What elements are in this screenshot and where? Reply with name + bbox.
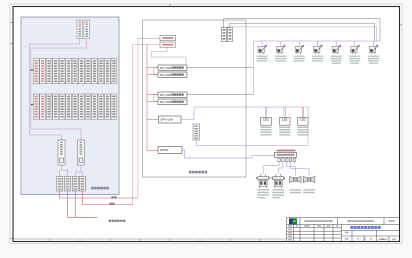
- DP-7100 controller 1: [158, 65, 187, 70]
- svg-text:DP-7100: DP-7100: [160, 93, 171, 97]
- terminal strip row 1: [33, 59, 39, 84]
- fiber transceiver 2: [160, 42, 176, 47]
- stub to strip row2: [31, 104, 33, 106]
- bottom revision strip: [13, 238, 287, 240]
- top wire A: [224, 19, 381, 41]
- camera bus: [254, 40, 381, 42]
- DP-7100 controller 3: [158, 92, 187, 97]
- bus riser from DP: [253, 41, 255, 95]
- label dianziweilan cabinet: [91, 187, 94, 190]
- speaker S2: [303, 176, 315, 182]
- wire DP3 out: [187, 94, 254, 96]
- wire zone modules to keypads: [60, 165, 62, 177]
- switch ports: [278, 159, 281, 162]
- camera C3: [294, 41, 305, 62]
- decoder box D1: [261, 107, 272, 136]
- camera C5: [331, 41, 342, 64]
- DPFW box: [158, 147, 182, 154]
- inner red distribution riser: [147, 44, 159, 150]
- camera C7: [368, 41, 379, 64]
- stub to strip row1: [30, 69, 34, 71]
- wire DPFW to switch: [182, 150, 275, 158]
- project name text: [348, 220, 350, 222]
- page no: [388, 220, 390, 222]
- camera C2: [275, 41, 286, 62]
- electronic fence cabinet panel: [21, 17, 119, 195]
- decoder box D2: [279, 107, 290, 136]
- camera C6: [349, 41, 360, 64]
- PTZ camera P2: [271, 174, 285, 188]
- drawing title blue: [350, 226, 353, 229]
- wire DP1 out: [187, 67, 254, 69]
- riser network: [133, 44, 161, 204]
- riser fiber: [138, 39, 160, 198]
- keypad modules row: [57, 177, 63, 192]
- wire from power modules: [30, 39, 80, 141]
- company logo: [289, 218, 297, 224]
- label guangxian: [109, 203, 111, 205]
- terminal strip row 2: [33, 94, 39, 119]
- zone module box 2: [78, 140, 85, 165]
- camera C4: [312, 41, 323, 62]
- switch label: [277, 150, 296, 152]
- decoder feed bus: [181, 107, 308, 120]
- svg-text:DPFW: DPFW: [160, 148, 169, 152]
- optical mux module A: [222, 28, 227, 42]
- wire transceiver to keyboards: [152, 47, 187, 65]
- svg-text:DP-V-LAN: DP-V-LAN: [161, 118, 174, 122]
- company name text: [305, 220, 307, 222]
- svg-text:DP-7100: DP-7100: [160, 73, 171, 77]
- power/fiber drops: [60, 191, 138, 217]
- port wires: [263, 161, 309, 175]
- label normal power line: [109, 220, 111, 222]
- small cells text: [288, 225, 395, 240]
- svg-text:DP-7100: DP-7100: [160, 66, 171, 70]
- wire decoder bus to switch: [196, 107, 308, 145]
- decoder box D3: [297, 107, 308, 136]
- fiber transceiver 1: [160, 35, 176, 40]
- zone module box 1: [58, 140, 65, 165]
- speaker S1: [290, 176, 302, 182]
- svg-text:DP-7100: DP-7100: [160, 100, 171, 104]
- pair link bracket 2: [154, 94, 158, 101]
- power module boxes top: [77, 20, 83, 39]
- top wire B: [230, 23, 375, 41]
- pair link bracket 1: [154, 67, 158, 74]
- PTZ camera P1: [256, 174, 270, 188]
- ethernet switch: [275, 152, 297, 157]
- DP-V-LAN box: [159, 116, 182, 123]
- top wire C: [226, 27, 376, 41]
- label video cabinet: [189, 171, 192, 174]
- optical mux module B: [228, 28, 233, 42]
- label wangxian: [111, 196, 113, 198]
- title block: [287, 218, 400, 242]
- device labels: [257, 189, 315, 198]
- wire: [31, 39, 87, 141]
- DP-7100 controller 2: [158, 72, 187, 77]
- small vertical terminal box: [193, 124, 200, 140]
- camera C1: [257, 41, 268, 62]
- DP-7100 controller 4: [158, 99, 187, 105]
- video surveillance cabinet rect: [143, 20, 247, 177]
